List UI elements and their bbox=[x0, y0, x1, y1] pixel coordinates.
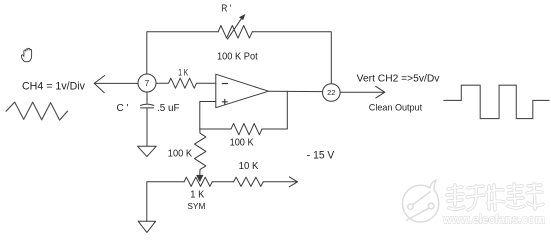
svg-text:Clean Output: Clean Output bbox=[369, 102, 423, 113]
svg-text:1 K: 1 K bbox=[178, 68, 188, 78]
svg-text:R ': R ' bbox=[221, 2, 231, 14]
square wave (clean output) bbox=[443, 85, 549, 118]
svg-text:- 15 V: - 15 V bbox=[307, 150, 335, 162]
node 7 bbox=[138, 74, 156, 92]
op-amp plus sign bbox=[222, 99, 227, 104]
svg-text:SYM: SYM bbox=[187, 202, 205, 211]
watermark title (white stroke cores) bbox=[447, 184, 543, 210]
watermark title (brush strokes) bbox=[447, 184, 543, 210]
svg-text:C ': C ' bbox=[117, 103, 129, 114]
potentiometer R' zigzag bbox=[218, 26, 252, 39]
resistor 100K feedback zigzag bbox=[231, 124, 262, 135]
svg-text:100 K: 100 K bbox=[230, 137, 254, 148]
wire: feedback bottom rail left bbox=[200, 128, 231, 130]
ground below capacitor bbox=[138, 146, 157, 156]
wiper arrow onto 1K pot bbox=[197, 175, 203, 181]
svg-text:1 K: 1 K bbox=[190, 189, 204, 201]
watermark logo circle bbox=[403, 180, 439, 222]
wire: feedback right + vertical to output bbox=[262, 91, 287, 129]
wire: op-amp output to node 22 bbox=[268, 90, 322, 92]
wire: capacitor to ground bbox=[146, 108, 148, 146]
svg-text:100 K: 100 K bbox=[168, 148, 192, 159]
capacitor C' plates bbox=[141, 104, 154, 105]
svg-text:Vert CH2 =>5v/Dv: Vert CH2 =>5v/Dv bbox=[357, 73, 440, 84]
wire: plus input bbox=[200, 102, 216, 130]
wire: bottom rail right with arrow bbox=[263, 177, 297, 187]
op-amp minus sign bbox=[222, 83, 227, 85]
node 22 bbox=[323, 84, 341, 102]
resistor 100K vertical zigzag bbox=[195, 129, 206, 175]
svg-text:www.elecfans.com: www.elecfans.com bbox=[442, 213, 545, 227]
svg-text:100 K Pot: 100 K Pot bbox=[217, 52, 258, 63]
wire: top rail right segment bbox=[252, 32, 331, 84]
hand cursor icon bbox=[21, 48, 31, 61]
wire: bottom rail left + ground drop bbox=[147, 182, 184, 222]
resistor 1K input zigzag bbox=[156, 78, 216, 88]
ground bottom left bbox=[138, 221, 155, 232]
svg-text:22: 22 bbox=[327, 88, 335, 97]
wire: bottom rail middle bbox=[212, 181, 233, 183]
potentiometer 1K SYM zigzag bbox=[184, 177, 212, 186]
arrow to CH4 from node 7 bbox=[94, 76, 138, 93]
svg-text:7: 7 bbox=[145, 79, 150, 88]
op-amp U1 bbox=[216, 74, 269, 108]
wire: top rail left segment bbox=[147, 32, 218, 74]
triangle wave (CH4 input) bbox=[6, 102, 68, 120]
svg-text:10 K: 10 K bbox=[239, 161, 259, 172]
resistor 10K zigzag bbox=[234, 177, 264, 186]
svg-text:CH4 = 1v/Div: CH4 = 1v/Div bbox=[22, 81, 85, 93]
wire: node 7 to capacitor bbox=[146, 92, 148, 104]
potentiometer R' wiper arrow bbox=[228, 17, 243, 39]
svg-text:.5 uF: .5 uF bbox=[157, 103, 180, 114]
arrow right of node 22 bbox=[340, 86, 385, 98]
